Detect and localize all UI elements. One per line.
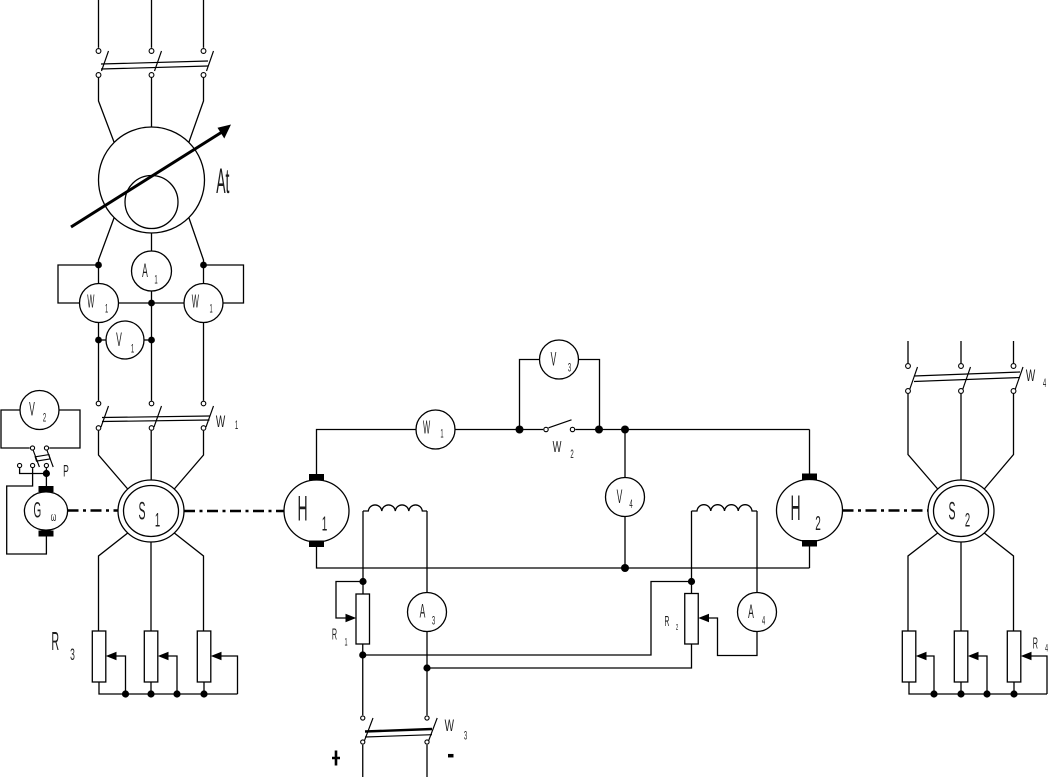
voltmeter V3 loop xyxy=(520,360,600,430)
wire V2 box right xyxy=(49,410,80,448)
node right top xyxy=(200,262,207,269)
machine S1 xyxy=(118,480,184,542)
svg-text:2: 2 xyxy=(570,448,573,462)
wire S1 feed right xyxy=(174,431,203,489)
star bus R3 xyxy=(99,682,238,694)
R2 wiper xyxy=(698,614,709,623)
switch W2 xyxy=(544,427,548,431)
wire right loop xyxy=(204,265,244,303)
main switch blade 3 xyxy=(207,51,214,71)
svg-text:H: H xyxy=(790,488,800,527)
ammeter A4 xyxy=(738,593,777,632)
wire to source minus xyxy=(426,745,428,777)
main switch lower contacts xyxy=(96,73,101,78)
wires W1 switch to S1 xyxy=(99,431,204,489)
ammeter A3 xyxy=(408,593,447,632)
svg-text:R: R xyxy=(665,613,670,630)
wire A3 node to R2 bottom xyxy=(427,644,692,668)
wire to source plus xyxy=(362,745,364,777)
svg-text:R: R xyxy=(1033,634,1038,652)
svg-text:V: V xyxy=(116,331,122,352)
node V1 left xyxy=(95,337,102,344)
rheostat R2 xyxy=(685,594,699,645)
svg-text:S: S xyxy=(139,499,146,526)
svg-text:ω: ω xyxy=(51,511,57,525)
svg-text:4: 4 xyxy=(762,614,765,628)
At arrow xyxy=(71,132,222,227)
svg-text:W: W xyxy=(87,291,95,312)
bottom DC bus H1 to H2 xyxy=(317,547,810,568)
SECTION: field circuit H1 side xyxy=(332,505,692,715)
svg-text:4: 4 xyxy=(1043,377,1046,391)
ammeter A1 xyxy=(132,251,172,291)
svg-text:W: W xyxy=(216,412,225,430)
node A3 bottom xyxy=(423,664,430,671)
field coil L1 xyxy=(363,505,427,511)
svg-text:W: W xyxy=(1026,366,1035,384)
wire S1 feed left xyxy=(99,431,128,489)
node bus V4 xyxy=(621,426,629,434)
svg-text:3: 3 xyxy=(70,645,75,664)
wire H2 top xyxy=(809,430,811,474)
svg-text:W: W xyxy=(192,291,200,312)
switch W3 blade 2 xyxy=(429,718,438,741)
rheostat R4b xyxy=(954,631,968,682)
tacho generator G xyxy=(24,492,67,530)
main switch blade 2 xyxy=(155,51,162,71)
wire phase1 top xyxy=(98,0,100,48)
wire right down xyxy=(203,323,205,401)
wire V1 right xyxy=(144,339,152,341)
wattmeter W1 left xyxy=(80,284,119,323)
SECTION: top DC bus with W1 meter, W2 switch, V3 xyxy=(317,340,810,474)
label plus xyxy=(332,751,340,766)
wire P mid to G bottom xyxy=(7,468,47,554)
rheostat R3b xyxy=(144,631,158,682)
autotransformer At xyxy=(71,125,231,234)
wire S2 out mid xyxy=(960,542,962,631)
wire phase2 xyxy=(960,341,962,363)
wattmeter W1 mid xyxy=(416,410,455,449)
wire S1 out mid xyxy=(150,542,152,631)
svg-text:P: P xyxy=(63,461,69,480)
wire phase2 top xyxy=(151,0,153,48)
svg-text:1: 1 xyxy=(131,342,134,356)
wire left dot to W1L xyxy=(98,265,100,284)
SECTION: rheostat bank R3 xyxy=(51,628,237,698)
switch W4 blade 3 xyxy=(1015,367,1023,390)
node left top xyxy=(95,262,102,269)
wire P wiper to node xyxy=(20,468,47,473)
wire W1L to W1R xyxy=(119,302,185,304)
svg-text:W: W xyxy=(445,716,454,734)
wire center down xyxy=(151,303,153,401)
SECTION: machine H2 xyxy=(777,430,843,569)
main switch upper contacts xyxy=(96,49,101,54)
wire to At phase1 xyxy=(99,78,115,143)
wattmeter W1 right xyxy=(184,284,223,323)
wire right dot to W1R xyxy=(203,265,205,284)
wire At bottom left xyxy=(99,218,115,266)
rheostat R1 xyxy=(356,594,370,644)
rheostat R3a xyxy=(92,631,106,682)
wire R1 down xyxy=(362,644,364,715)
SECTION: machine S1 xyxy=(99,480,204,631)
wire S1 out right xyxy=(174,533,203,631)
wire S2 feed mid xyxy=(960,394,962,480)
main switch gang bar xyxy=(101,61,208,69)
svg-text:R: R xyxy=(332,625,337,643)
wire V2 box left xyxy=(1,410,30,448)
wire W2 to H2 xyxy=(575,429,809,431)
node bus left xyxy=(516,426,524,434)
wire S1 feed mid xyxy=(150,431,152,480)
shaft G to S1 xyxy=(68,509,119,512)
SECTION: switch W3 and DC source xyxy=(332,716,467,777)
svg-text:V: V xyxy=(29,400,35,421)
SECTION: machine S2 xyxy=(908,480,1014,631)
wire coil left to R1 xyxy=(362,511,364,594)
svg-text:A: A xyxy=(748,603,754,624)
svg-text:3: 3 xyxy=(432,614,435,628)
svg-text:S: S xyxy=(949,499,956,526)
switch W1 blade 1 xyxy=(101,406,109,427)
wire S2 out right xyxy=(984,533,1013,631)
node V1 right xyxy=(148,337,155,344)
switch W3 gang bar xyxy=(365,729,432,732)
wire H2 bottom xyxy=(809,547,811,569)
voltmeter V2 xyxy=(20,391,59,430)
main switch blade 1 xyxy=(102,51,109,71)
field coil L2 xyxy=(692,505,758,511)
wire to At phase3 xyxy=(189,78,204,143)
svg-text:H: H xyxy=(297,489,307,528)
wire to At phase2 xyxy=(151,78,153,127)
wire S2 feed left xyxy=(908,394,938,489)
svg-text:2: 2 xyxy=(815,514,821,536)
svg-text:1: 1 xyxy=(235,419,238,433)
wire A3 down xyxy=(426,632,428,716)
svg-text:4: 4 xyxy=(629,498,632,512)
wire S2 feed right xyxy=(984,394,1013,489)
SECTION: meter cluster A1 W1 W1 V1 xyxy=(58,251,244,401)
P lower contacts xyxy=(18,463,22,467)
wire phase3 top xyxy=(203,0,205,48)
rheostat R3c xyxy=(197,631,211,682)
rheostat R4c xyxy=(1007,631,1021,682)
switch W1 blade 2 xyxy=(154,406,162,427)
node center xyxy=(148,300,155,307)
svg-text:W: W xyxy=(553,437,562,455)
R1 wiper xyxy=(336,582,363,619)
SECTION: machine H1 xyxy=(284,474,349,547)
label minus xyxy=(448,754,454,758)
wire phase3 xyxy=(1013,341,1015,363)
wire H1 top to W1 meter xyxy=(317,430,417,475)
svg-text:1: 1 xyxy=(155,510,160,532)
wire phase1 xyxy=(907,341,909,363)
switch W1 blade 3 xyxy=(206,406,214,427)
wire node to G top xyxy=(45,468,47,486)
svg-text:3: 3 xyxy=(464,729,467,743)
wire S2 out left xyxy=(908,533,938,631)
svg-text:3: 3 xyxy=(568,361,571,375)
svg-text:1: 1 xyxy=(344,635,347,648)
SECTION: switch W4 and 3-phase right xyxy=(906,341,1047,489)
rheostat R4a xyxy=(902,631,916,682)
svg-text:2: 2 xyxy=(43,411,46,425)
svg-text:R: R xyxy=(51,628,59,657)
svg-text:At: At xyxy=(216,161,230,200)
wire At bottom right xyxy=(189,218,204,266)
wire At bottom mid xyxy=(151,233,153,251)
SECTION: top-left 3-phase supply and main switch xyxy=(96,0,213,143)
switch W3 blade 1 xyxy=(365,718,374,741)
shaft H2 to S2 xyxy=(843,509,929,512)
wire coil right to A4 xyxy=(756,511,758,593)
wire left down xyxy=(98,323,100,401)
wire A1 to bus xyxy=(151,291,153,303)
node R2 top xyxy=(688,578,695,585)
switch W4 gang bar xyxy=(914,372,1020,382)
svg-text:A: A xyxy=(420,602,426,623)
switch W4 blade 2 xyxy=(963,367,971,390)
wire S1 out left xyxy=(99,533,128,631)
svg-text:V: V xyxy=(551,350,557,371)
SECTION: switch W1 xyxy=(96,401,238,433)
node R1 bottom xyxy=(359,651,366,658)
svg-text:1: 1 xyxy=(322,514,328,536)
node G plus xyxy=(43,470,50,477)
node bus V3 right xyxy=(595,426,603,434)
SECTION: field circuit H2 side xyxy=(665,505,777,656)
svg-text:A: A xyxy=(142,262,148,283)
svg-text:2: 2 xyxy=(965,510,970,532)
node R1 top xyxy=(359,578,366,585)
wire W1 to node xyxy=(455,429,543,431)
svg-text:1: 1 xyxy=(154,273,157,287)
SECTION: V4 branch xyxy=(606,430,645,573)
wire V1 left xyxy=(99,339,107,341)
star bus R4 xyxy=(909,682,1047,694)
wire R1 bottom to R2 top xyxy=(363,582,692,656)
SECTION: rheostat bank R4 xyxy=(902,631,1048,698)
potentiometer P xyxy=(30,446,34,450)
svg-text:W: W xyxy=(423,416,431,437)
wire left loop xyxy=(58,265,99,303)
SECTION: left column V2 P G xyxy=(1,391,80,555)
wire coil left to R2 xyxy=(691,511,693,594)
switch W1 gang bar xyxy=(102,416,210,422)
wire coil right to A3 xyxy=(426,511,428,593)
switch W4 blade 1 xyxy=(910,367,918,390)
svg-text:1: 1 xyxy=(440,427,443,440)
shaft S1 to H1 xyxy=(184,510,284,513)
wires At to meter cluster xyxy=(99,218,204,266)
svg-text:2: 2 xyxy=(676,624,679,633)
voltmeter V1 xyxy=(106,321,144,359)
svg-text:G: G xyxy=(33,498,41,523)
svg-text:V: V xyxy=(617,488,623,509)
svg-text:1: 1 xyxy=(209,302,212,315)
svg-text:1: 1 xyxy=(105,302,108,315)
